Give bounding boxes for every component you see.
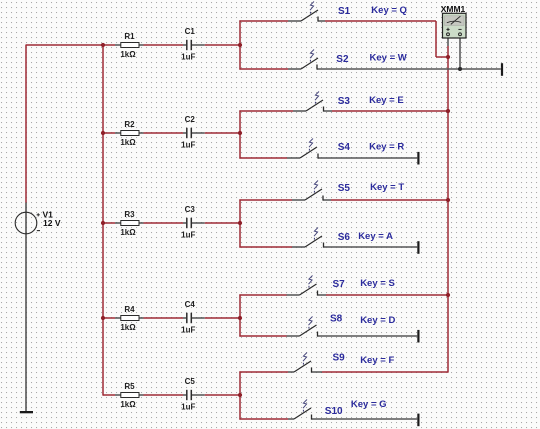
svg-text:XMM1: XMM1 <box>441 4 466 14</box>
svg-text:Key = Q: Key = Q <box>371 5 407 16</box>
svg-text:S4: S4 <box>338 142 351 153</box>
svg-text:1uF: 1uF <box>181 140 195 149</box>
svg-text:Key = G: Key = G <box>351 399 387 410</box>
svg-text:1uF: 1uF <box>181 325 195 334</box>
svg-text:S1: S1 <box>338 6 351 17</box>
svg-text:C2: C2 <box>185 115 196 124</box>
svg-text:1uF: 1uF <box>181 402 195 411</box>
svg-text:1kΩ: 1kΩ <box>120 138 136 147</box>
svg-text:R1: R1 <box>124 32 135 41</box>
svg-text:Key = D: Key = D <box>360 315 395 326</box>
svg-text:C5: C5 <box>185 377 196 386</box>
svg-text:S5: S5 <box>338 183 351 194</box>
svg-text:R3: R3 <box>124 210 135 219</box>
svg-text:Key = F: Key = F <box>360 355 394 366</box>
svg-text:R5: R5 <box>124 382 135 391</box>
svg-text:1kΩ: 1kΩ <box>120 50 136 59</box>
svg-text:C1: C1 <box>185 27 196 36</box>
svg-text:S3: S3 <box>338 96 351 107</box>
svg-text:Key = T: Key = T <box>370 182 404 193</box>
svg-text:S6: S6 <box>338 232 351 243</box>
svg-text:1kΩ: 1kΩ <box>120 228 136 237</box>
svg-text:S9: S9 <box>333 353 346 364</box>
svg-text:12 V: 12 V <box>43 218 61 228</box>
svg-text:C4: C4 <box>185 300 196 309</box>
svg-text:R2: R2 <box>124 120 135 129</box>
svg-text:1kΩ: 1kΩ <box>120 323 136 332</box>
svg-text:R4: R4 <box>124 305 135 314</box>
svg-text:Key = A: Key = A <box>358 231 393 242</box>
svg-text:S8: S8 <box>330 314 343 325</box>
svg-text:S7: S7 <box>333 279 346 290</box>
svg-text:1kΩ: 1kΩ <box>120 400 136 409</box>
svg-text:Key = W: Key = W <box>370 53 407 64</box>
svg-text:Key = S: Key = S <box>360 278 395 289</box>
svg-text:C3: C3 <box>185 205 196 214</box>
svg-text:1uF: 1uF <box>181 230 195 239</box>
svg-text:Key = E: Key = E <box>369 95 404 106</box>
svg-text:Key = R: Key = R <box>369 141 404 152</box>
svg-text:S10: S10 <box>325 406 343 417</box>
svg-text:1uF: 1uF <box>181 52 195 61</box>
svg-text:S2: S2 <box>336 54 349 65</box>
